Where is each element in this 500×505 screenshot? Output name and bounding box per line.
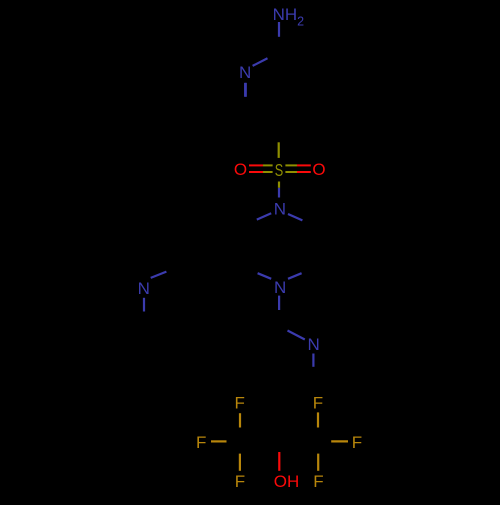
- wire N1=C6 double bond: [244, 83, 246, 97]
- wire C to OH: [278, 452, 280, 471]
- wire NH2 to C2: [278, 22, 280, 37]
- svg-text:N: N: [239, 63, 251, 82]
- svg-text:F: F: [235, 472, 245, 491]
- svg-text:F: F: [196, 433, 206, 452]
- wire F right to C: [331, 440, 348, 442]
- svg-text:F: F: [235, 394, 245, 413]
- wire lower pyridine N to C: [312, 354, 314, 367]
- wire piperazine N1 to C2: [257, 213, 271, 219]
- svg-text:N: N: [308, 335, 320, 354]
- wire F top-left to C: [239, 413, 241, 427]
- wire S=O right double bond: [285, 164, 297, 166]
- wire piperazine N4 to ring C: [278, 296, 280, 310]
- wire F left to C: [211, 440, 227, 442]
- svg-text:F: F: [352, 433, 362, 452]
- wire F bottom-right to C: [317, 454, 319, 471]
- wire C5 to S: [278, 142, 280, 158]
- wire C to pyridine N (lower ring): [288, 331, 305, 340]
- wire F top-right to C: [317, 412, 319, 427]
- svg-text:O: O: [234, 160, 247, 179]
- svg-text:N: N: [274, 200, 286, 219]
- wire F bottom-left to C: [239, 454, 241, 471]
- wire methylamino N to ring C: [151, 272, 167, 278]
- wire S to piperazine N1: [278, 182, 280, 188]
- wire S=O left double bond: [249, 164, 263, 166]
- wire N1 to C2: [253, 58, 268, 66]
- svg-text:N: N: [274, 278, 286, 297]
- svg-text:OH: OH: [274, 472, 300, 491]
- svg-text:N: N: [138, 279, 150, 298]
- svg-text:O: O: [312, 160, 325, 179]
- svg-text:S: S: [275, 160, 284, 180]
- wire piperazine N4 to C3: [258, 273, 272, 279]
- svg-text:F: F: [313, 394, 323, 413]
- wire methylamino N to CH3: [143, 298, 145, 312]
- wire piperazine N1 to C6: [288, 214, 302, 220]
- wire piperazine N4 to C5: [288, 273, 302, 279]
- svg-text:F: F: [313, 472, 323, 491]
